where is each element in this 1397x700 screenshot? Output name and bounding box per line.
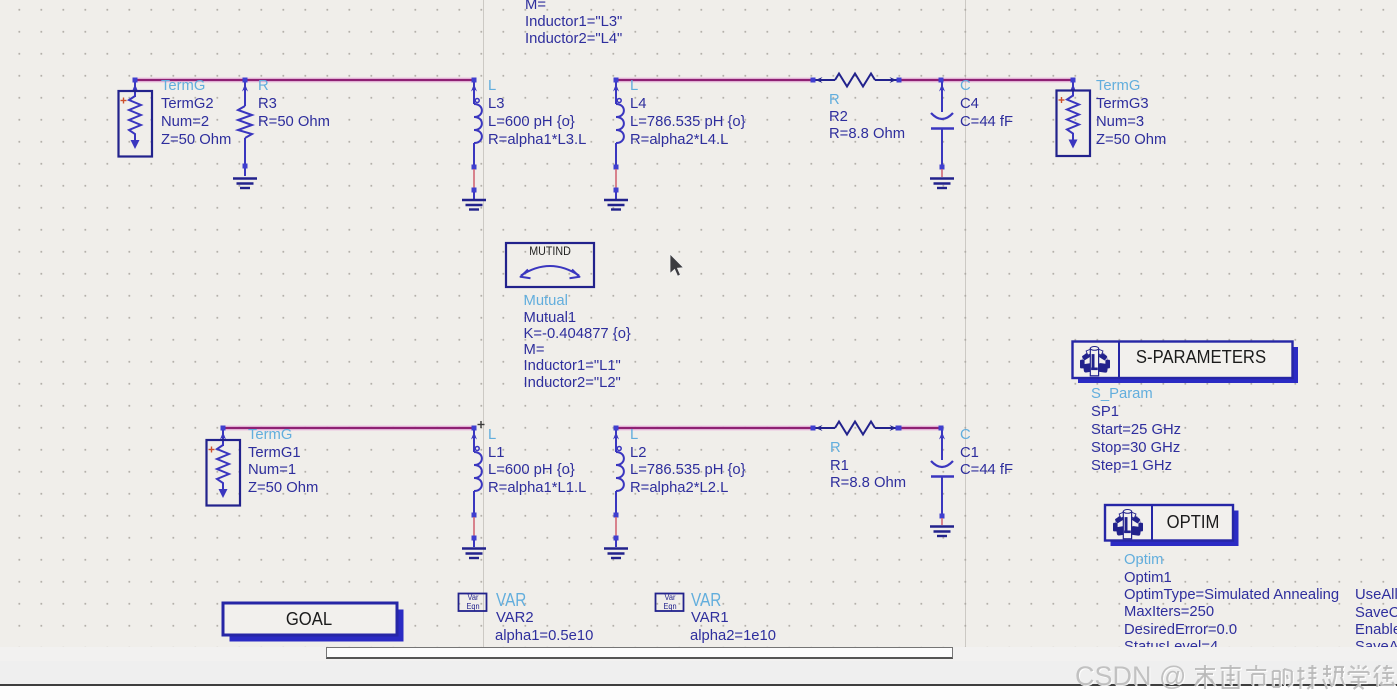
VAR1 VarEqn icon box <box>656 594 684 612</box>
ground for L1 <box>462 549 486 559</box>
label L3 <box>488 78 496 94</box>
watermark CSDN <box>1075 661 1186 692</box>
label Optim1 parameters <box>1124 552 1163 568</box>
mutual inductor Mutual1 MUTIND box <box>506 243 594 287</box>
label L4 <box>630 78 638 94</box>
ground for C4 <box>930 179 954 189</box>
label TermG1 <box>248 427 292 443</box>
GOAL box <box>230 610 404 642</box>
wire C1 to ground <box>941 518 943 525</box>
wire top-right net: L4 to R2 <box>616 78 813 83</box>
label R1 <box>830 440 841 456</box>
label C1 <box>960 427 971 443</box>
scrollbar track <box>0 647 1397 661</box>
window frame gray strip <box>0 661 1397 684</box>
inductor L1 <box>474 430 482 514</box>
ground for L2 <box>604 549 628 559</box>
label C4 <box>960 78 971 94</box>
label TermG2 <box>161 78 205 94</box>
label S-PARAMETERS title <box>1136 346 1266 368</box>
wire top-right net: R2 to C4 to TermG3 <box>899 78 1073 83</box>
S-PARAMETERS gear icon <box>1080 347 1110 376</box>
ground for C1 <box>930 527 954 537</box>
label R3 <box>258 78 269 94</box>
junction cross marker at L1 node <box>478 421 485 428</box>
port TermG1 <box>222 428 224 446</box>
label VarEqn icon text VAR2 <box>460 594 486 611</box>
wire bottom-left net: TermG1 to L1 <box>223 426 474 431</box>
S-PARAMETERS controller box <box>1078 347 1298 383</box>
wire L3 to ground <box>473 169 475 188</box>
label TermG3 <box>1096 78 1140 94</box>
inductor L4 <box>616 82 624 166</box>
label VarEqn icon text VAR1 <box>657 594 683 611</box>
wire top-left net: TermG2 to L3 <box>135 78 474 83</box>
inductor L2 <box>616 430 624 514</box>
wire L1 to ground <box>473 517 475 536</box>
OPTIM gear icon <box>1113 510 1143 539</box>
OPTIM controller box <box>1111 511 1239 547</box>
ground for L4 <box>604 200 628 210</box>
capacitor C4 <box>931 82 954 166</box>
VAR2 VarEqn icon box <box>459 594 487 612</box>
wire L4 to ground <box>615 169 617 188</box>
mouse cursor <box>670 254 684 276</box>
label GOAL title <box>286 608 332 630</box>
resistor R2 <box>813 74 899 87</box>
sheet boundary line left <box>483 0 484 648</box>
label MUTIND title <box>529 246 571 258</box>
label VAR2 <box>496 590 526 611</box>
ground for R3 <box>233 179 257 189</box>
label L2 <box>630 427 638 443</box>
capacitor C1 <box>931 430 954 514</box>
inductor L3 <box>474 82 482 166</box>
watermark hanzi (drawn) <box>1193 665 1397 695</box>
label Optim1 parameters right column <box>1355 587 1397 603</box>
label VAR1 <box>691 590 721 611</box>
label S_Param SP1 <box>1091 386 1153 402</box>
ground for L3 <box>462 200 486 210</box>
port TermG2 <box>134 80 136 97</box>
label OPTIM title <box>1166 511 1219 533</box>
label R2 <box>829 92 840 108</box>
scrollbar thumb <box>326 647 953 659</box>
wire L2 to ground <box>615 517 617 536</box>
wire bottom-right net: R1 to C1 <box>898 426 941 431</box>
port TermG3 <box>1072 80 1074 97</box>
sheet boundary line right <box>965 0 966 648</box>
label top Mutual2 parameters (clipped) <box>525 0 546 13</box>
wire C4 to ground <box>941 169 943 177</box>
resistor R1 <box>813 422 899 435</box>
wire bottom-right net: L2 to R1 <box>616 426 813 431</box>
resistor R3 <box>244 82 246 106</box>
label Mutual1 <box>524 293 568 309</box>
window bottom edge line <box>0 684 1397 686</box>
label L1 <box>488 427 496 443</box>
